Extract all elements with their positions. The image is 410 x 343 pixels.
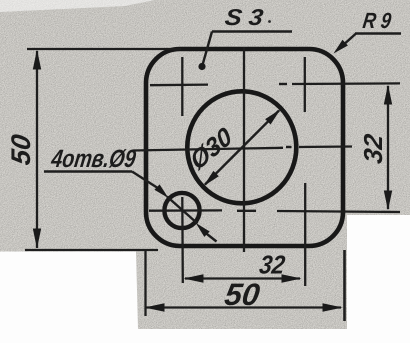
label S3: dot on face bbox=[198, 63, 205, 70]
dim 50 left: top extension line bbox=[27, 48, 181, 50]
dim 32 bottom: dimension line bbox=[185, 277, 300, 279]
dim 50 left: arrow down bbox=[33, 229, 41, 249]
dim 50 left: dimension line bbox=[36, 51, 38, 248]
svg-text:32: 32 bbox=[258, 250, 288, 280]
dim 50 left: bottom extension line bbox=[25, 249, 158, 251]
dim 50 bottom: arrow left bbox=[145, 303, 165, 311]
label R9: underline bbox=[355, 32, 401, 34]
centerline vertical right column bbox=[304, 57, 306, 112]
svg-text:32: 32 bbox=[358, 132, 388, 166]
label 4otv: lower-right tick line bbox=[205, 233, 217, 242]
diameter arrow line bbox=[205, 111, 279, 185]
label 4otv: underline bbox=[44, 170, 132, 172]
label 4otv: arrowhead at hole upper-left bbox=[154, 184, 168, 198]
circle 30 (center) bbox=[187, 91, 296, 203]
svg-text:S 3: S 3 bbox=[223, 4, 265, 30]
dim 32 bottom: arrow left bbox=[184, 274, 204, 282]
white scan margins bbox=[0, 215, 410, 343]
hole circle 9 (bottom-left) bbox=[164, 193, 199, 228]
centerline vertical center bbox=[243, 47, 245, 252]
dim 50 left: arrow up bbox=[33, 50, 41, 70]
label R9: leader line bbox=[341, 34, 356, 48]
dim 32 right: arrow down bbox=[384, 191, 392, 211]
centerline horizontal bottom row bbox=[149, 209, 222, 212]
dim 32 right: arrow up bbox=[384, 85, 392, 105]
svg-text:4отв.Ø9: 4отв.Ø9 bbox=[49, 145, 138, 173]
dim 50 bottom: arrow right bbox=[323, 303, 343, 311]
label 4otv: diameter line through hole bbox=[167, 197, 198, 224]
dim 50 bottom: right extension line bbox=[343, 250, 346, 321]
label R9: arrowhead bbox=[334, 40, 348, 54]
label 4otv: arrowhead at hole lower-right bbox=[196, 223, 210, 237]
svg-text:R 9: R 9 bbox=[361, 8, 393, 33]
diameter arrowhead lower-left bbox=[203, 171, 218, 186]
dim 32 right: dimension line bbox=[387, 86, 389, 209]
label S3: underline bbox=[212, 30, 292, 32]
centerline horizontal middle bbox=[133, 148, 283, 151]
label S3: leader line bbox=[203, 32, 213, 66]
label 4otv: leader to hole bbox=[132, 172, 159, 189]
dim 50 bottom: dimension line bbox=[146, 306, 341, 308]
svg-text:50: 50 bbox=[5, 132, 36, 166]
centerline vertical left column bbox=[181, 57, 183, 116]
stray dot after S3 bbox=[268, 20, 271, 23]
dim 50 bottom: left extension line bbox=[144, 250, 146, 316]
centerline horizontal top row bbox=[150, 83, 208, 86]
dim 32 bottom: arrow right bbox=[282, 274, 302, 282]
plate outline (rounded square 50x50 R9) bbox=[146, 49, 343, 246]
svg-text:50: 50 bbox=[223, 277, 263, 312]
diameter arrowhead upper-right bbox=[265, 109, 280, 124]
